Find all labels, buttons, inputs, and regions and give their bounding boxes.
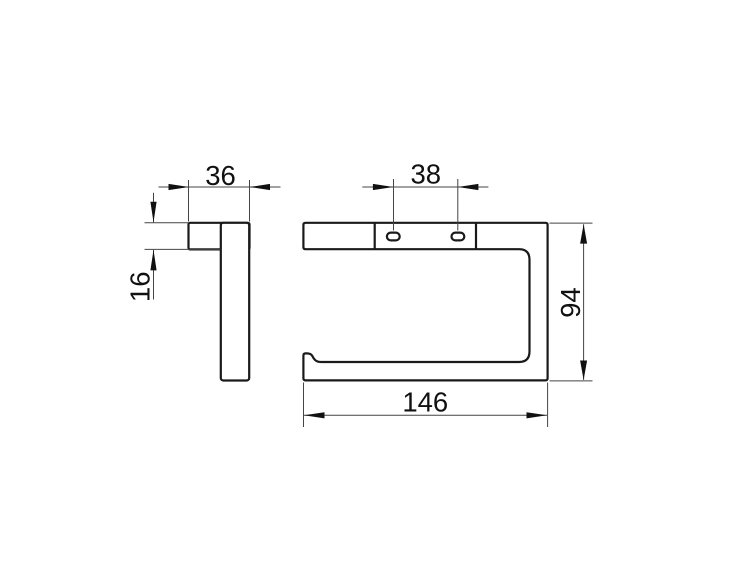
svg-text:94: 94 [555,287,586,318]
dimension 36: left arrowhead [169,184,190,190]
svg-text:146: 146 [402,387,448,418]
dimension 38: right arrowhead [458,184,479,190]
dimension 36: extension line right [249,180,251,222]
dimension 94: extension line top [550,222,593,224]
dimension 16: lower arrowhead [150,250,156,271]
left side view: vertical arm [221,223,249,381]
dimension 38: dimension line [362,186,488,188]
dimension 36: dimension line [159,186,281,188]
dimension 146: extension line left [303,383,305,428]
dimension 16: extension line bottom [145,248,221,250]
left side view: mounting plate [189,223,250,250]
dimension 146: right arrowhead [527,412,548,418]
front view: right divider of mounting section [475,223,477,249]
front view: holder outline [303,223,547,381]
dimension 146: left arrowhead [304,412,325,418]
dimension 36: right arrowhead [250,184,271,190]
dimension 94: dimension line [583,224,585,380]
dimension 16: extension line top [145,222,189,224]
dimension 146: dimension line [304,414,547,416]
dimension 146: extension line right [547,383,549,428]
dimension 38: left arrowhead [373,184,394,190]
dimension 38: extension line left [393,179,395,231]
dimension 16: upper arrowhead [150,202,156,223]
dimension 36: extension line left [188,180,190,222]
front view: right screw hole (slot) [452,233,465,241]
svg-text:16: 16 [125,272,156,303]
dimension 16: lower dimension line tail [153,250,155,300]
svg-text:36: 36 [205,160,236,191]
dimension 38: extension line right [457,179,459,231]
front view: left divider of mounting section [374,223,376,249]
dimension 94: bottom arrowhead [580,361,587,380]
svg-text:38: 38 [411,159,442,190]
dimension 16: upper dimension line tail [153,193,155,223]
dimension 94: extension line bottom [550,380,593,382]
front view: left screw hole (slot) [387,233,400,241]
dimension 94: top arrowhead [580,224,587,243]
